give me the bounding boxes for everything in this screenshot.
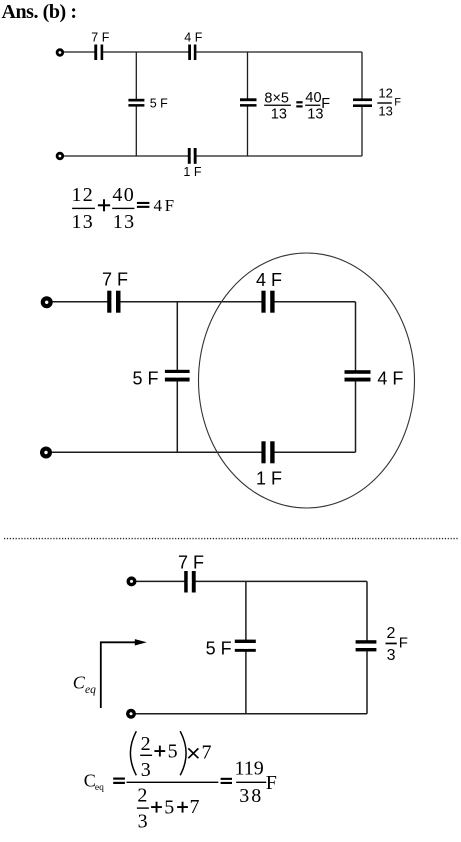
svg-text:eq: eq bbox=[85, 684, 96, 696]
svg-text:7 F: 7 F bbox=[178, 552, 204, 572]
svg-text:12: 12 bbox=[378, 86, 392, 101]
svg-text:4: 4 bbox=[154, 196, 163, 215]
terminal C1 bottom-left bbox=[56, 152, 64, 160]
svg-text:F: F bbox=[399, 635, 408, 652]
wire C1 vertical right edge bbox=[361, 52, 363, 156]
svg-text:7: 7 bbox=[190, 796, 200, 818]
svg-text:eq: eq bbox=[95, 783, 104, 793]
capacitor 40/13F (circuit 1) bbox=[240, 98, 257, 106]
wire C3 vertical node-1 bbox=[245, 581, 247, 713]
svg-text:5 F: 5 F bbox=[206, 638, 232, 658]
wire C1 bottom bbox=[60, 155, 362, 157]
svg-text:3: 3 bbox=[138, 811, 148, 833]
svg-text:40: 40 bbox=[305, 90, 321, 106]
svg-text:4 F: 4 F bbox=[184, 31, 202, 45]
svg-text:4 F: 4 F bbox=[256, 270, 282, 290]
svg-text:7 F: 7 F bbox=[102, 270, 128, 290]
wire C3 top bbox=[132, 580, 368, 582]
svg-text:1 F: 1 F bbox=[183, 165, 201, 179]
svg-text:13: 13 bbox=[113, 211, 134, 233]
svg-text:F: F bbox=[394, 96, 401, 108]
svg-text:12: 12 bbox=[72, 184, 93, 206]
svg-text:13: 13 bbox=[72, 211, 93, 233]
ellipse highlight bbox=[199, 253, 415, 508]
label Ceq bbox=[73, 672, 96, 696]
svg-text:3: 3 bbox=[387, 647, 396, 664]
svg-text:2: 2 bbox=[387, 625, 396, 642]
capacitor 4F top (circuit 2) bbox=[261, 291, 274, 313]
capacitor 4F (circuit 1) bbox=[188, 45, 196, 61]
wire C2 top bbox=[47, 301, 356, 303]
svg-text:5: 5 bbox=[164, 797, 174, 819]
svg-text:C: C bbox=[73, 672, 86, 692]
capacitor 1F (circuit 2) bbox=[261, 441, 274, 463]
svg-text:2: 2 bbox=[141, 733, 151, 755]
terminal C3 bottom-left bbox=[126, 709, 136, 719]
svg-text:5 F: 5 F bbox=[150, 97, 168, 111]
capacitor 5F (circuit 1) bbox=[128, 99, 144, 107]
svg-text:F: F bbox=[165, 196, 174, 215]
wire C1 vertical node-2 bbox=[247, 52, 249, 156]
wire C3 bottom bbox=[131, 713, 367, 715]
arrow Ceq bbox=[100, 639, 147, 708]
capacitor 1F (circuit 1) bbox=[188, 148, 197, 164]
capacitor 7F (circuit 1) bbox=[94, 45, 103, 61]
formula Ceq = ((2/3+5)x7)/(2/3+5+7) = 119/38 F bbox=[84, 731, 277, 833]
svg-text:4 F: 4 F bbox=[377, 368, 403, 388]
formula 12/13 + 40/13 = 4 F bbox=[72, 184, 175, 233]
wire C2 bottom bbox=[47, 451, 356, 453]
svg-text:Ans. (b) :: Ans. (b) : bbox=[2, 1, 78, 23]
capacitor 5F (circuit 2) bbox=[165, 370, 190, 382]
svg-text:40: 40 bbox=[112, 184, 133, 206]
capacitor 12/13F (circuit 1) bbox=[353, 98, 372, 107]
svg-text:7 F: 7 F bbox=[91, 31, 109, 45]
svg-text:13: 13 bbox=[378, 104, 392, 119]
label 8x5/13 = 40/13 F (circuit 1) bbox=[264, 90, 330, 123]
capacitor 7F (circuit 2) bbox=[107, 291, 120, 313]
svg-text:F: F bbox=[266, 772, 277, 794]
terminal C2 top-left bbox=[41, 296, 53, 308]
wire C1 vertical node-1 bbox=[135, 52, 137, 156]
capacitor 2/3F (circuit 3) bbox=[356, 640, 377, 651]
svg-text:13: 13 bbox=[271, 107, 287, 123]
dotted separator bbox=[4, 538, 458, 540]
wire C1 top bbox=[60, 51, 362, 53]
svg-text:1 F: 1 F bbox=[256, 469, 282, 489]
wire C2 vertical node-1 bbox=[176, 302, 178, 453]
svg-text:F: F bbox=[321, 96, 330, 112]
svg-text:3: 3 bbox=[141, 759, 151, 781]
terminal C3 top-left bbox=[127, 576, 137, 586]
svg-text:7: 7 bbox=[202, 742, 212, 764]
svg-text:8×5: 8×5 bbox=[264, 91, 289, 107]
svg-text:38: 38 bbox=[239, 785, 261, 807]
capacitor 5F (circuit 3) bbox=[235, 640, 256, 652]
label 12/13 F (circuit 1) bbox=[377, 86, 401, 119]
capacitor 4F right (circuit 2) bbox=[345, 370, 371, 381]
capacitor 7F (circuit 3) bbox=[184, 571, 196, 593]
svg-text:5: 5 bbox=[168, 741, 178, 763]
wire C2 vertical right edge bbox=[355, 302, 357, 453]
svg-text:5 F: 5 F bbox=[133, 368, 159, 388]
wire C3 vertical right edge bbox=[366, 581, 368, 713]
svg-text:119: 119 bbox=[235, 757, 264, 779]
svg-text:2: 2 bbox=[137, 785, 147, 807]
label 2/3 F (circuit 3) bbox=[386, 625, 408, 664]
terminal C1 top-left bbox=[56, 48, 64, 56]
terminal C2 bottom-left bbox=[40, 447, 52, 459]
